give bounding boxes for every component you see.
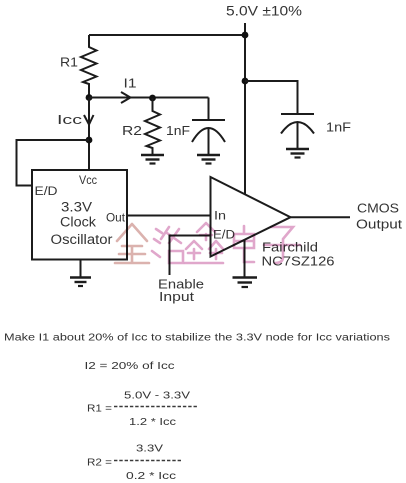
wire E/D loop to oscillator xyxy=(17,140,90,186)
pin label E/D xyxy=(35,186,58,198)
formula R2 lhs xyxy=(87,458,112,469)
svg-text:Output: Output xyxy=(356,217,402,232)
node cap branch junction xyxy=(242,78,249,85)
label CMOS xyxy=(357,201,399,216)
formula R2 numerator xyxy=(136,444,163,455)
svg-text:R1 =: R1 = xyxy=(87,404,112,415)
formula R1 numerator xyxy=(124,391,190,402)
formula R1 bar xyxy=(114,406,198,408)
svg-text:E/D: E/D xyxy=(213,230,235,242)
svg-text:R2 =: R2 = xyxy=(87,458,112,469)
formula R1 lhs xyxy=(87,404,112,415)
svg-text:3.3V: 3.3V xyxy=(136,444,163,455)
wire right cap branch xyxy=(245,81,298,114)
svg-text:Out: Out xyxy=(106,213,126,225)
svg-text:In: In xyxy=(214,211,226,223)
ground oscillator xyxy=(70,260,91,287)
svg-text:I2 = 20% of Icc: I2 = 20% of Icc xyxy=(85,361,175,372)
formula I2 xyxy=(85,361,175,372)
label 1nF left xyxy=(166,123,190,138)
ground buffer xyxy=(233,240,258,288)
svg-text:Vcc: Vcc xyxy=(79,175,97,187)
svg-text:Input: Input xyxy=(159,289,194,304)
resistor R1 xyxy=(81,35,97,97)
ground R2 xyxy=(141,155,164,164)
wire I1 horizontal xyxy=(89,97,209,99)
note line xyxy=(4,333,390,344)
label Fairchild xyxy=(262,240,318,255)
label Output xyxy=(356,217,402,232)
pin label E/D (buffer) xyxy=(213,230,235,242)
node R2 top junction xyxy=(149,95,156,102)
ground C2 xyxy=(286,149,309,158)
arrow Icc xyxy=(84,115,94,125)
ground C1 xyxy=(197,155,220,164)
svg-text:0.2 * Icc: 0.2 * Icc xyxy=(126,471,176,482)
label Input xyxy=(159,289,194,304)
svg-text:1nF: 1nF xyxy=(166,123,190,138)
label 5.0V ±10% xyxy=(226,3,302,19)
svg-text:3.3V: 3.3V xyxy=(61,200,92,215)
capacitor C1 1nF (left) xyxy=(192,98,225,155)
svg-text:5.0V ±10%: 5.0V ±10% xyxy=(226,3,302,19)
pin label Out xyxy=(106,213,126,225)
label Oscillator xyxy=(51,232,114,247)
svg-text:Icc: Icc xyxy=(57,112,83,127)
wire Icc vertical to oscillator Vcc xyxy=(88,98,90,171)
formula R1 denominator xyxy=(129,417,176,428)
label 1nF right xyxy=(326,120,351,135)
label R2 xyxy=(122,123,142,138)
label NC7SZ126 xyxy=(262,254,335,269)
svg-text:Fairchild: Fairchild xyxy=(262,240,318,255)
label R1 xyxy=(60,55,78,70)
svg-text:1.2 * Icc: 1.2 * Icc xyxy=(129,417,176,428)
buffer U2 triangle xyxy=(211,177,291,257)
wire top horizontal from R1 to supply node xyxy=(89,34,245,36)
svg-text:I1: I1 xyxy=(124,76,137,91)
label I1 xyxy=(124,76,137,91)
svg-text:R1: R1 xyxy=(60,55,78,70)
wire output xyxy=(291,216,351,218)
formula R2 denominator xyxy=(126,471,176,482)
label Clock xyxy=(60,215,96,230)
svg-text:Oscillator: Oscillator xyxy=(51,232,114,247)
svg-text:E/D: E/D xyxy=(35,186,58,198)
arrow I1 xyxy=(121,92,131,103)
wire Out to buffer In xyxy=(127,215,211,217)
svg-text:Clock: Clock xyxy=(60,215,96,230)
resistor R2 xyxy=(145,98,160,154)
node R1 bottom junction xyxy=(86,94,93,101)
oscillator U1 box xyxy=(32,170,127,260)
capacitor C2 1nF (right) xyxy=(281,114,314,148)
node supply junction xyxy=(242,32,249,39)
watermark xyxy=(115,223,300,263)
svg-text:R2: R2 xyxy=(122,123,142,138)
wire enable to buffer E/D xyxy=(170,236,211,276)
wire supply vertical drop xyxy=(244,23,246,194)
svg-text:5.0V - 3.3V: 5.0V - 3.3V xyxy=(124,391,190,402)
node E/D branch junction xyxy=(86,137,93,144)
svg-text:Make I1 about 20% of Icc to st: Make I1 about 20% of Icc to stabilize th… xyxy=(4,333,390,344)
svg-text:1nF: 1nF xyxy=(326,120,351,135)
formula R2 bar xyxy=(114,460,181,462)
svg-text:CMOS: CMOS xyxy=(357,201,399,216)
svg-text:NC7SZ126: NC7SZ126 xyxy=(262,254,335,269)
label Enable xyxy=(158,277,204,292)
label Icc xyxy=(57,112,83,127)
pin label In xyxy=(214,211,226,223)
label 3.3V xyxy=(61,200,92,215)
pin label Vcc xyxy=(79,175,97,187)
